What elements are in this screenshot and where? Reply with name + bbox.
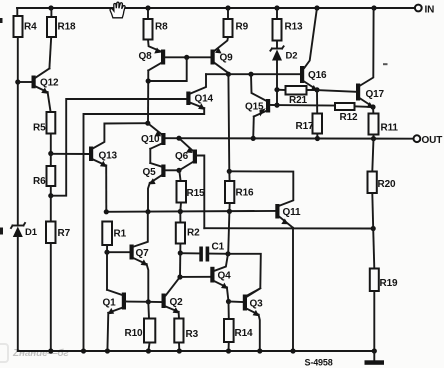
transistor Q2 [148,277,183,318]
transistor Q13 [89,123,148,212]
svg-text:R2: R2 [187,228,200,239]
node ground rail / R10 junction [146,348,151,353]
node Q15 collector junction [248,72,253,77]
transistor Q4 [210,254,231,302]
resistor R4 [14,16,23,37]
wire R2 bottom to Q2 collector node [179,253,181,277]
transistor Q5 [143,163,180,212]
wire R16 bottom column down to C1 node [228,211,229,253]
node Q15 base junction [274,103,279,108]
node bus / R15-R2 junction [178,209,183,214]
wire bottom ground rail [18,350,375,352]
svg-text:C1: C1 [212,242,225,253]
svg-text:Q4: Q4 [218,271,232,282]
transistor Q14 [186,74,213,110]
resistor R19 [370,229,398,352]
diode D2 (zener) [270,46,297,105]
wire R1 node down to Q1 collector [106,252,108,290]
wire R16 column upper (Q9 collector node down to R16) [227,74,230,171]
node Q8/Q9 base junction [184,55,189,60]
node Q12 base junction [15,79,20,84]
svg-text:R11: R11 [381,123,399,134]
capacitor C1 [180,242,228,262]
wire left supply column upper (rail to R4) [16,8,18,16]
node ground rail / R3 junction [177,348,182,353]
transistor Q11 [275,204,301,351]
svg-text:Q10: Q10 [141,134,160,145]
artifact left edge mark [0,228,3,235]
svg-text:R6: R6 [33,176,46,187]
node bus / Q7 collector junction [145,209,150,214]
wire Q9 collector horizontal bus y74 to Q16 base [206,73,300,75]
svg-text:R15: R15 [187,188,205,199]
transistor Q6 [175,138,204,228]
transistor Q15 [245,74,277,138]
node OUT rail / R11 junction [371,136,376,141]
svg-text:R8: R8 [155,22,168,33]
svg-text:R5: R5 [33,123,46,134]
node OUT rail / Q15 emitter junction [251,136,256,141]
svg-text:Q7: Q7 [136,248,150,259]
svg-text:R16: R16 [236,188,254,199]
wire left column R4 to Q12 base node [17,37,19,82]
resistor R3 [174,319,198,352]
transistor Q9 [211,48,234,73]
terminal OUT [414,135,421,142]
transistor Q3 [229,288,264,351]
node Q4 emitter / Q3 base / R14 junction [226,299,231,304]
svg-text:R3: R3 [186,329,199,340]
cursor hand icon [110,2,125,18]
node D2 / R21 junction [274,87,279,92]
svg-text:Q13: Q13 [99,151,118,162]
resistor R11 [369,107,399,139]
node ground rail / Q1 emitter junction [105,348,110,353]
svg-text:Q1: Q1 [103,298,117,309]
transistor Q16 [300,9,327,92]
node bus / R16 junction [227,209,232,214]
node top rail / R18 junction [48,5,53,10]
resistor R10 [125,302,156,351]
resistor R9 [215,8,249,51]
svg-text:Q3: Q3 [250,299,264,310]
node OUT rail / Q6 emitter junction [176,136,181,141]
wire Q13 base [51,153,89,155]
resistor R15 [177,171,205,212]
svg-text:Q11: Q11 [283,207,301,218]
node top rail / R9 junction [225,5,230,10]
node ground rail / Q11 emitter junction [290,348,295,353]
node ground rail / R14 junction [226,348,231,353]
node R5/R6 junction [48,151,53,156]
resistor R20 [368,139,396,229]
node Q16 emitter / R17 / Q17 base junction [314,87,319,92]
artifact small dash [383,63,388,65]
node top rail / Q17 collector junction [371,5,376,10]
node ground rail / ground symbol junction [372,348,377,353]
node ground rail / R7 junction [48,348,53,353]
resistor R8 [144,8,169,52]
wire C1 node to Q3 collector [228,254,261,296]
svg-text:D1: D1 [25,227,38,238]
wire mid horizontal bus y211 (R1 top to Q11 base) [106,210,275,213]
svg-text:Q17: Q17 [366,89,385,100]
node Q2 collector / Q4 base junction [177,274,182,279]
node Q5 base / Q6 / R15 junction [176,168,181,173]
svg-text:R10: R10 [125,328,143,339]
node Q1/Q2 base and R10 junction [146,299,151,304]
node top rail / R13 junction [274,5,279,10]
wire Q11 collector branch [229,171,293,205]
wire R6 junction to Q14 base (up and right) [51,99,187,196]
resistor R14 [224,302,253,352]
svg-text:R18: R18 [58,22,76,33]
wire left column Q12 node down to D1 [17,82,19,226]
wire top supply rail [17,7,415,9]
svg-text:D2: D2 [286,51,298,62]
transistor Q1 [103,290,149,351]
svg-text:R17: R17 [296,121,314,132]
node ground rail / Q3 emitter junction [257,348,262,353]
transistor Q8 [139,48,211,124]
resistor R5 [33,112,55,154]
node Q8 collector loop junction [146,78,151,83]
svg-text:S-4958: S-4958 [305,358,333,368]
wire left column D1 to bottom rail [17,237,19,351]
node OUT rail / R17 junction [315,136,320,141]
ground symbol [365,351,385,365]
node R1 bottom / Q7 base / Q1 collector junction [104,250,109,255]
svg-text:Q12: Q12 [40,78,59,89]
svg-text:Q6: Q6 [175,151,189,162]
svg-text:R4: R4 [24,22,37,33]
svg-text:Q9: Q9 [220,53,234,64]
resistor R18 [47,8,76,69]
svg-text:Q16: Q16 [308,70,327,81]
wire Q8 base-collector loop [148,57,187,81]
watermark bottom left [0,344,69,362]
resistor R21 [277,86,317,106]
node top rail / R8 junction [145,5,150,10]
resistor R12 [335,103,373,123]
node Q8 collector / Q13 collector / Q10 emitter junction [145,121,150,126]
svg-text:OUT: OUT [422,135,443,146]
resistor R2 [176,212,200,254]
svg-text:Q14: Q14 [195,94,214,105]
svg-text:Q15: Q15 [245,102,264,113]
diode D1 [11,223,38,238]
svg-text:R13: R13 [285,22,303,33]
transistor Q10 [141,123,166,163]
node y228 bus / R20-R19 junction [371,226,376,231]
node R16 top / Q11 collector junction [227,169,232,174]
node bus / R1 junction [104,209,109,214]
svg-text:Q8: Q8 [139,51,153,62]
node Q9 collector junction [226,72,231,77]
svg-text:R9: R9 [236,22,249,33]
svg-text:R14: R14 [235,328,253,339]
svg-text:Q2: Q2 [170,297,184,308]
transistor Q12 [18,69,59,113]
transistor Q7 [107,212,149,302]
node top rail / Q16 collector junction [314,5,319,10]
svg-text:R19: R19 [380,278,398,289]
resistor R17 [296,90,323,139]
svg-text:R12: R12 [340,112,358,123]
node R2 bottom / C1 junction [178,250,183,255]
resistor R16 [225,171,254,211]
svg-text:Zнание—бг: Zнание—бг [12,347,69,359]
wire OUT rail [165,137,413,140]
wire Q14 emitter to ground column [84,108,205,351]
svg-text:IN: IN [425,5,435,16]
svg-text:R1: R1 [114,229,127,240]
node C1 / Q4 collector junction [225,251,230,256]
wire y228 bus (Q6 base wire to R20/R19 node) [204,227,373,229]
svg-text:R7: R7 [58,228,71,239]
svg-text:Q5: Q5 [143,167,157,178]
resistor R1 [102,222,126,253]
resistor R13 [273,8,303,49]
resistor R6 [33,154,55,196]
transistor Q17 [318,8,385,108]
resistor R7 [46,196,71,351]
node R12 / Q17 emitter / R11 junction [370,104,375,109]
node ground rail / Q14 emitter column junction [81,348,86,353]
wire Q4 base [180,276,210,278]
wire Q15 base bus y105 to R12 [277,104,335,107]
node R6/R7 junction [48,193,53,198]
svg-text:R20: R20 [378,179,396,190]
artifact left edge tick top [0,18,3,23]
terminal IN [415,5,422,12]
